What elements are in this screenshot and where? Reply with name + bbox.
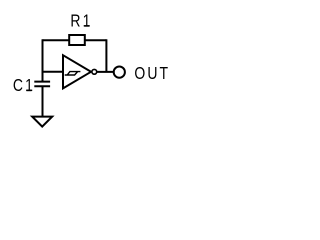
wire feedback vertical right bbox=[105, 39, 107, 72]
svg-text:R1: R1 bbox=[70, 12, 92, 31]
hysteresis symbol bbox=[65, 72, 81, 75]
label R1 bbox=[70, 12, 92, 31]
wire left vertical bbox=[42, 39, 44, 81]
wire top feedback bbox=[43, 39, 107, 41]
op-amp U1 (Schmitt inverter triangle) bbox=[63, 55, 91, 88]
serif foot of 1 in C1 bbox=[26, 90, 31, 92]
capacitor C1 bottom plate bbox=[34, 85, 50, 87]
output terminal circle bbox=[114, 67, 125, 78]
wire inverter input bbox=[42, 71, 65, 73]
serif foot of 1 in R1 bbox=[84, 25, 89, 27]
label OUT bbox=[134, 65, 170, 84]
wire capacitor to ground bbox=[42, 86, 44, 116]
inverter output bubble bbox=[92, 69, 97, 74]
label C1 bbox=[13, 77, 35, 96]
svg-text:OUT: OUT bbox=[134, 65, 170, 84]
svg-text:C1: C1 bbox=[13, 77, 35, 96]
capacitor C1 top plate bbox=[34, 81, 50, 83]
wire output bbox=[97, 71, 114, 73]
resistor R1 bbox=[69, 35, 85, 45]
ground bbox=[32, 117, 52, 127]
